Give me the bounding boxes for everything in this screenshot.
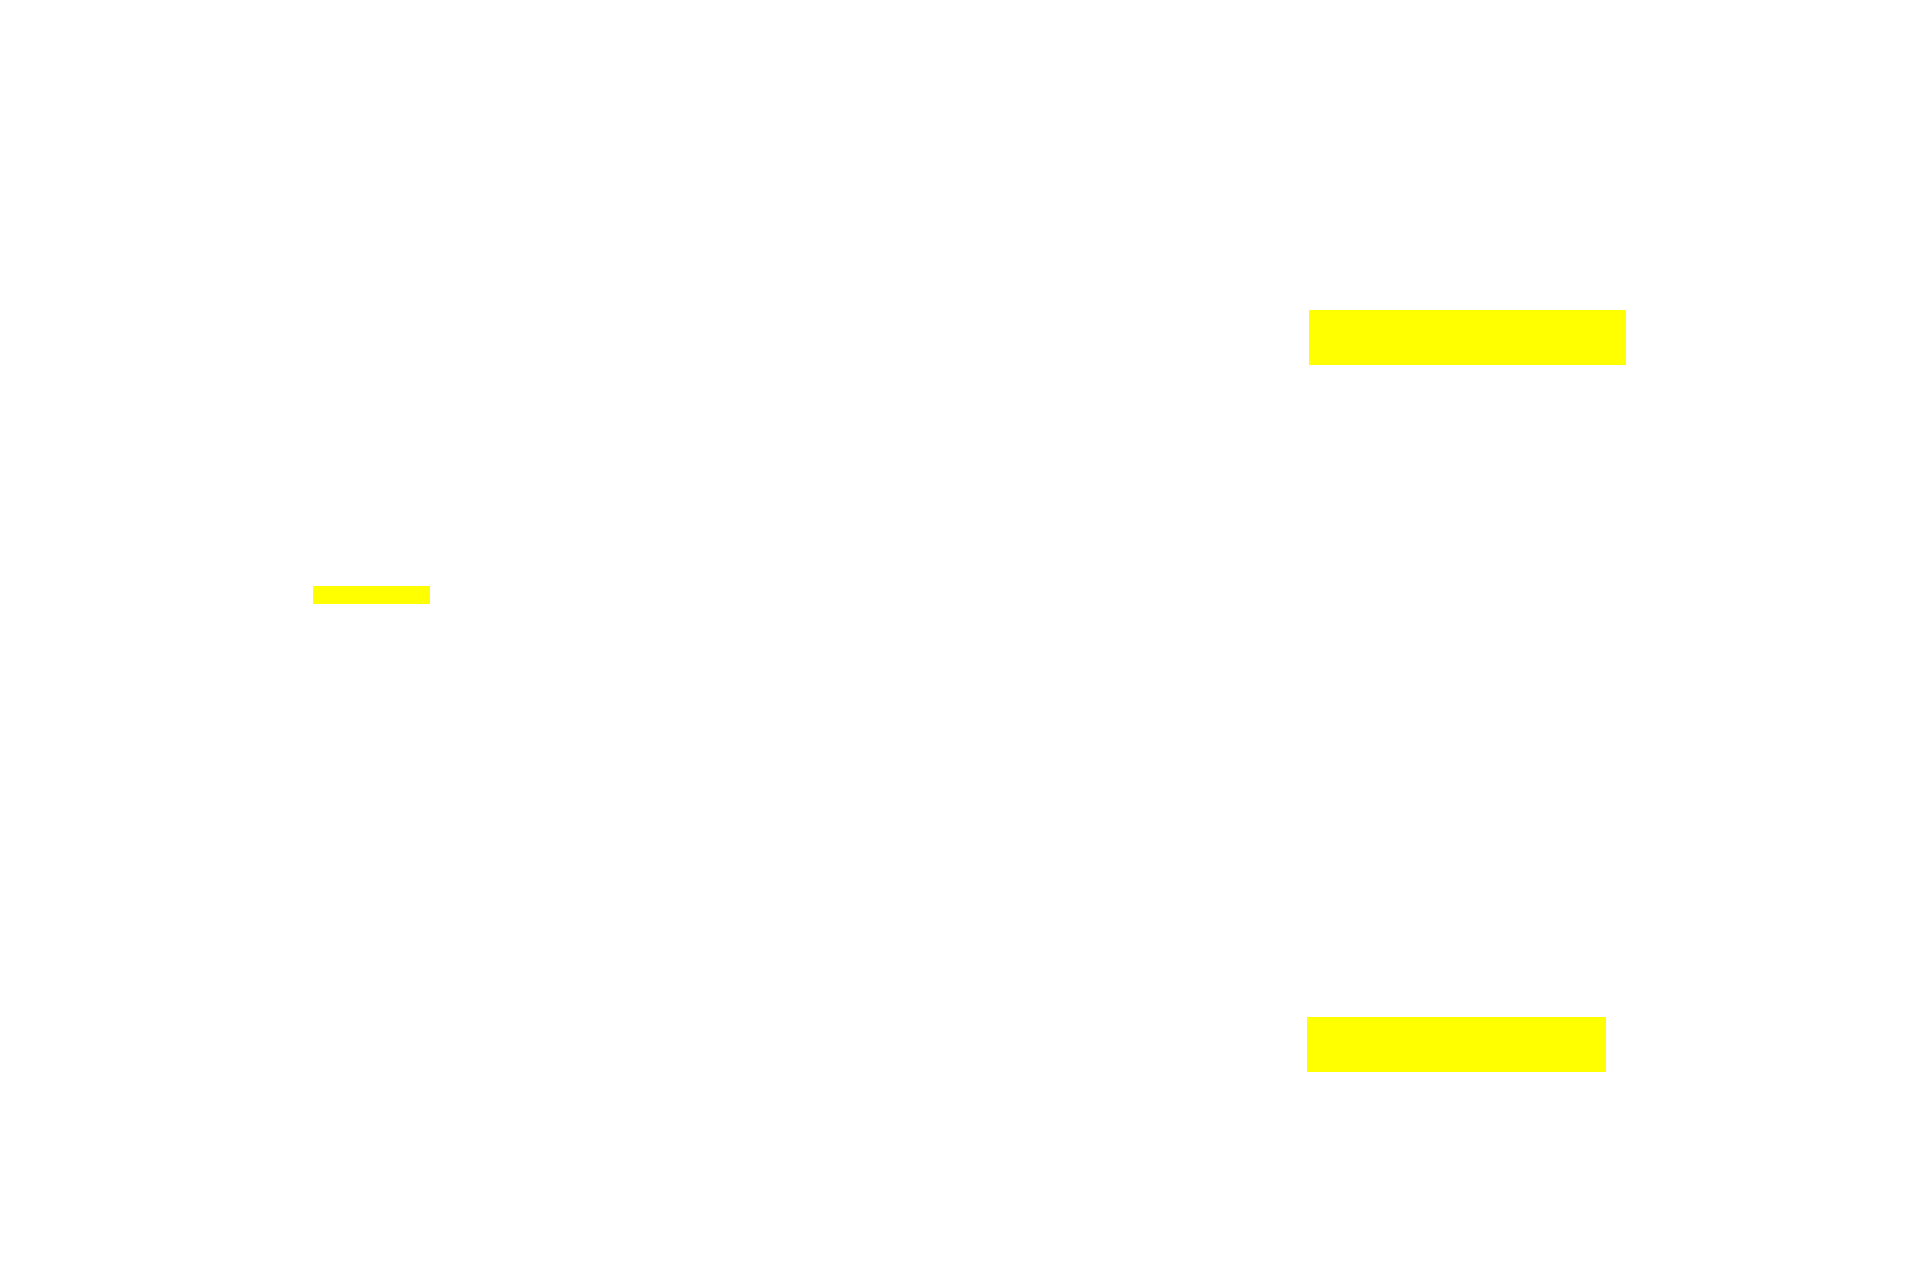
highlight bar 3 (bottom right) bbox=[1307, 1017, 1606, 1072]
highlight bar 1 (top right) bbox=[1309, 310, 1626, 365]
highlight bar 2 (left small) bbox=[313, 586, 430, 604]
